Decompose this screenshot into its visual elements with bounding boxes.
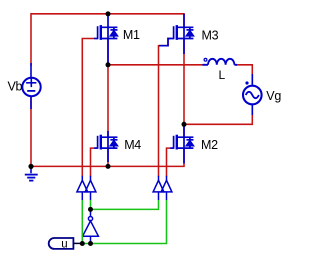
junction node A xyxy=(106,62,111,67)
wire u line bottom to buffer B2 xyxy=(80,200,166,244)
inductor L xyxy=(203,59,238,65)
svg-text:M1: M1 xyxy=(123,28,140,42)
ground xyxy=(25,166,38,180)
gate driver buffer B1 xyxy=(153,176,164,200)
inverter U1 xyxy=(83,211,99,242)
svg-text:M4: M4 xyxy=(124,138,141,152)
junction ground node xyxy=(28,164,33,169)
svg-text:Vb: Vb xyxy=(8,80,23,94)
svg-text:M3: M3 xyxy=(202,29,219,43)
wire M3 source to node B to M2 drain xyxy=(183,39,185,138)
MOSFET M1 xyxy=(94,14,117,63)
svg-text:M2: M2 xyxy=(201,138,218,152)
terminal marker dot of L xyxy=(204,58,207,61)
wire Vg bottom to node B xyxy=(184,104,252,124)
wire node A to inductor L xyxy=(108,64,204,66)
gate driver buffer A2 xyxy=(85,176,96,200)
input port u xyxy=(49,238,80,250)
gate driver buffer A1 xyxy=(77,176,88,200)
AC source Vg xyxy=(243,74,262,115)
wire Vb bottom to ground node xyxy=(30,97,32,167)
wire inductor to Vg top xyxy=(236,65,252,86)
wire inverter output to buffer A2 and buffer B1 xyxy=(90,200,92,211)
wire u line to buffer A1 xyxy=(81,200,83,244)
wire bottom rail ground to M2 source xyxy=(31,148,184,166)
wire M4 source to bottom rail xyxy=(107,148,109,166)
wire M1 source to node A and down to M4 drain xyxy=(107,39,109,138)
wire top rail from Vb to M3 drain xyxy=(31,14,184,66)
wire gate M4 from buffer A2 xyxy=(91,148,95,176)
MOSFET M2 xyxy=(170,127,193,164)
terminal marker dot of Vg xyxy=(245,81,248,84)
wire gate M2 from buffer B2 xyxy=(167,148,171,176)
junction top rail M1 drain xyxy=(106,11,111,16)
wire gate M3 from buffer B1 with jog xyxy=(159,39,171,177)
svg-text:L: L xyxy=(219,68,226,82)
svg-text:Vg: Vg xyxy=(266,89,281,103)
MOSFET M4 xyxy=(94,131,117,162)
voltage source Vb xyxy=(22,63,40,109)
MOSFET M3 xyxy=(159,14,194,54)
gate driver buffer B2 xyxy=(161,176,172,200)
junction node B xyxy=(182,122,187,127)
junction M4 source rail xyxy=(106,164,111,169)
svg-text:u: u xyxy=(61,238,67,250)
junction inverter output xyxy=(88,207,93,212)
junction u line left xyxy=(80,241,85,246)
junction u line inverter input xyxy=(88,241,93,246)
wire gate M1 from buffer A1 xyxy=(82,39,94,177)
